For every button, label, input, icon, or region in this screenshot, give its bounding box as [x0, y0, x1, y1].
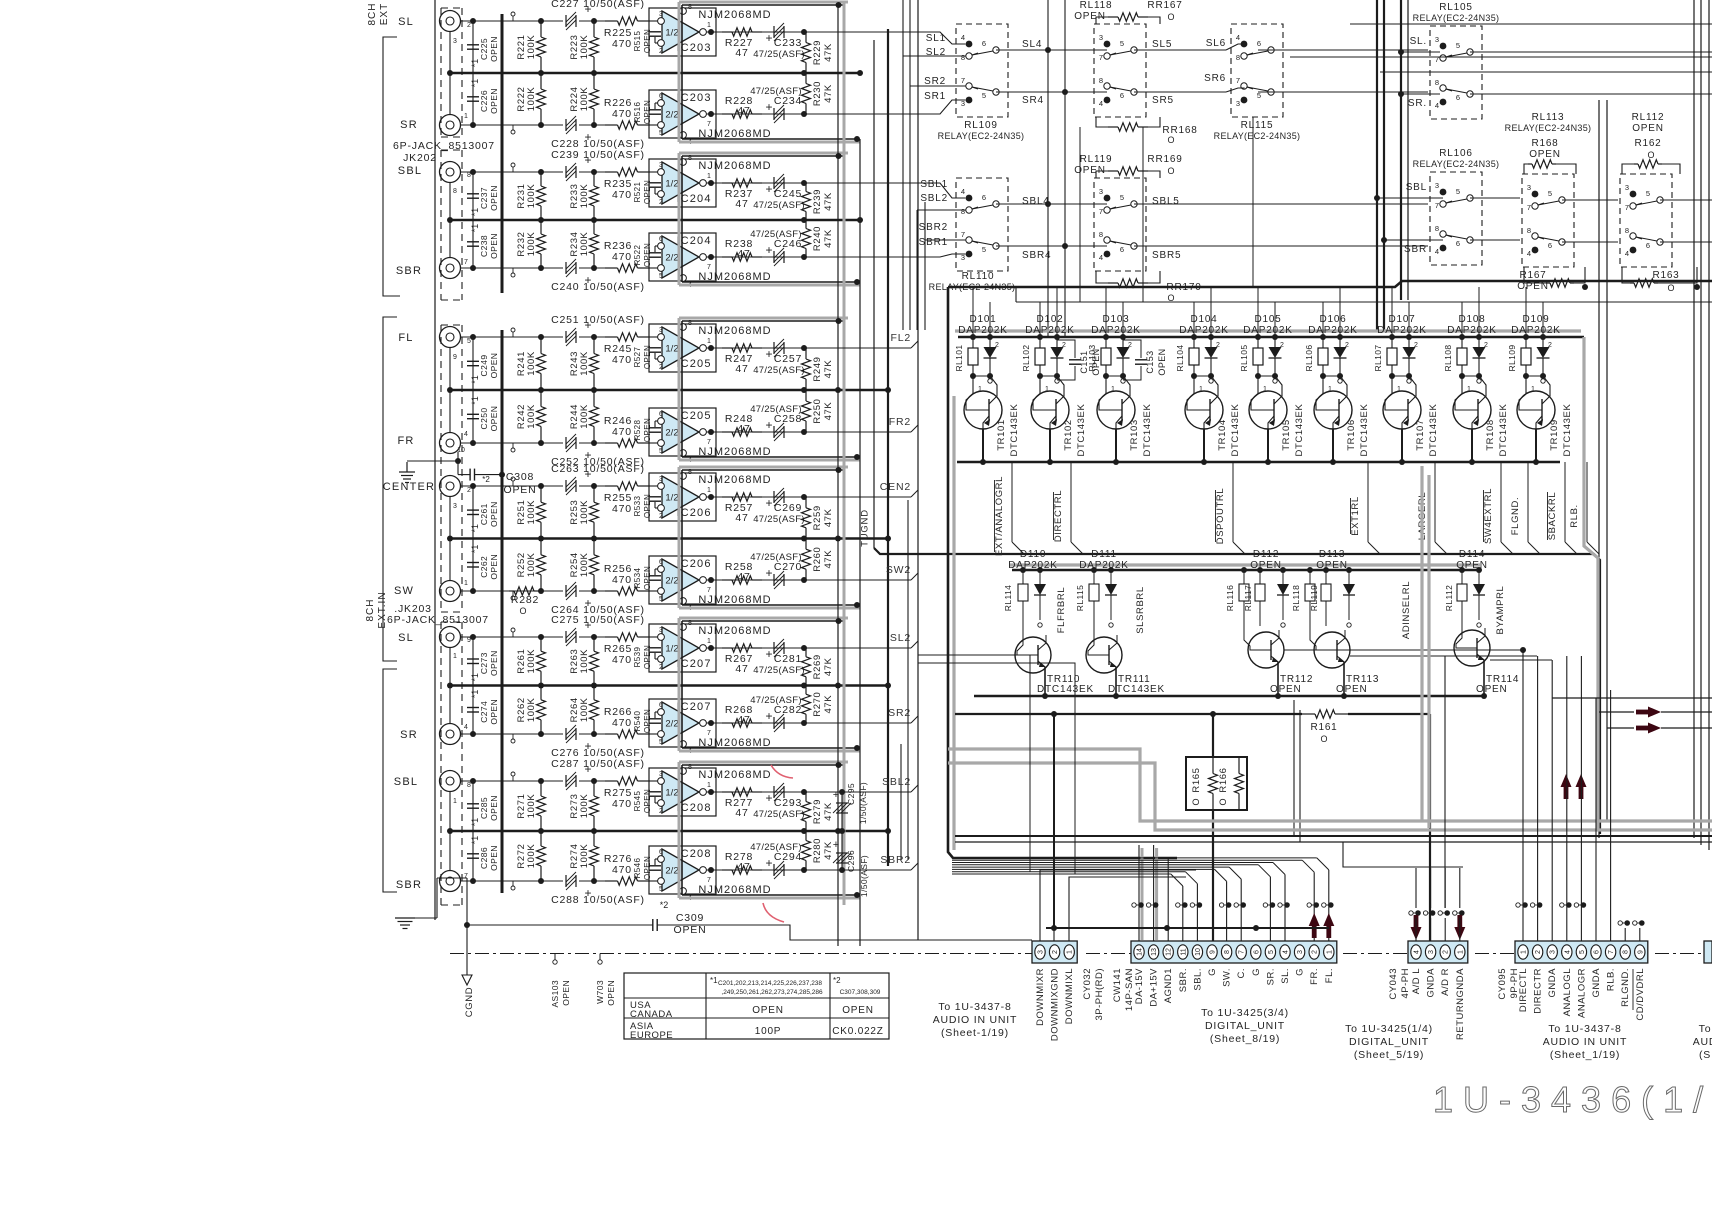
svg-text:OPEN: OPEN — [1157, 348, 1167, 375]
svg-text:R163: R163 — [1652, 270, 1679, 281]
svg-text:12: 12 — [1166, 948, 1173, 956]
svg-text:RETURNGNDA: RETURNGNDA — [1455, 968, 1466, 1040]
svg-text:OPEN: OPEN — [1529, 149, 1561, 160]
svg-text:C226: C226 — [479, 90, 489, 112]
svg-text:SL.: SL. — [1280, 968, 1291, 984]
svg-text:100K: 100K — [526, 404, 537, 429]
svg-text:7: 7 — [1527, 203, 1531, 212]
svg-text:47: 47 — [737, 423, 750, 435]
svg-text:7: 7 — [707, 587, 711, 594]
svg-text:R230: R230 — [812, 81, 823, 106]
svg-text:2: 2 — [659, 364, 663, 371]
svg-text:(Sheet-1/19): (Sheet-1/19) — [941, 1027, 1009, 1039]
svg-text:OPEN: OPEN — [1091, 348, 1101, 375]
svg-text:2: 2 — [467, 487, 471, 494]
svg-text:3: 3 — [1435, 181, 1439, 190]
svg-text:4: 4 — [1099, 253, 1103, 262]
svg-text:O: O — [519, 606, 526, 616]
svg-text:C270: C270 — [774, 561, 802, 573]
svg-text:7: 7 — [1608, 950, 1615, 954]
svg-text:5: 5 — [1268, 950, 1275, 954]
svg-text:SR6: SR6 — [1204, 73, 1226, 84]
svg-text:RELAY(EC2-24N35): RELAY(EC2-24N35) — [1413, 159, 1500, 169]
svg-text:6: 6 — [1456, 239, 1460, 248]
svg-text:TR109: TR109 — [1549, 419, 1560, 451]
svg-text:C307,308,309: C307,308,309 — [840, 989, 881, 996]
svg-text:47: 47 — [737, 714, 750, 726]
svg-text:6: 6 — [1594, 950, 1601, 954]
svg-text:47: 47 — [735, 663, 748, 675]
svg-text:R527: R527 — [633, 346, 642, 367]
svg-text:TR102: TR102 — [1063, 419, 1074, 451]
svg-text:7: 7 — [707, 877, 711, 884]
svg-text:47K: 47K — [823, 43, 834, 62]
svg-text:OPEN: OPEN — [643, 709, 652, 733]
svg-text:7: 7 — [707, 264, 711, 271]
svg-text:ANALOGL: ANALOGL — [1562, 968, 1573, 1016]
svg-text:7: 7 — [707, 730, 711, 737]
svg-text:100K: 100K — [579, 35, 590, 60]
svg-text:D107: D107 — [1388, 314, 1415, 325]
svg-text:DOWNMIXR: DOWNMIXR — [1035, 968, 1046, 1026]
svg-text:DOWNMIXL: DOWNMIXL — [1064, 968, 1075, 1024]
svg-text:EXT1RL: EXT1RL — [1350, 496, 1361, 536]
svg-text:RL116: RL116 — [1225, 585, 1235, 611]
svg-text:+: + — [765, 243, 772, 257]
svg-text:47: 47 — [737, 248, 750, 260]
svg-text:470: 470 — [612, 189, 632, 201]
svg-text:AUD: AUD — [1693, 1036, 1712, 1048]
svg-text:+: + — [765, 182, 772, 196]
svg-text:1: 1 — [707, 22, 711, 29]
svg-text:3: 3 — [659, 476, 663, 483]
svg-text:1: 1 — [1326, 950, 1333, 954]
svg-text:100K: 100K — [526, 184, 537, 209]
svg-text:DTC143EK: DTC143EK — [1562, 404, 1573, 457]
svg-text:W703: W703 — [595, 980, 605, 1004]
svg-text:EXT: EXT — [379, 3, 390, 25]
svg-text:CY095: CY095 — [1497, 968, 1508, 1000]
svg-text:FR.: FR. — [1309, 968, 1320, 985]
svg-text:4: 4 — [1283, 950, 1290, 954]
svg-text:RR167: RR167 — [1147, 0, 1182, 11]
svg-text:47: 47 — [735, 807, 748, 819]
svg-text:470: 470 — [612, 798, 632, 810]
svg-text:*1: *1 — [470, 690, 480, 699]
svg-text:7: 7 — [707, 439, 711, 446]
svg-text:RLB.: RLB. — [1569, 504, 1580, 528]
svg-text:4: 4 — [1625, 249, 1629, 258]
svg-text:C225: C225 — [479, 38, 489, 60]
svg-text:TUGND: TUGND — [860, 509, 871, 547]
svg-text:47: 47 — [737, 861, 750, 873]
svg-text:5: 5 — [1456, 41, 1460, 50]
svg-text:OPEN: OPEN — [643, 180, 652, 204]
svg-text:100K: 100K — [579, 844, 590, 869]
svg-text:RL109: RL109 — [1507, 344, 1517, 371]
svg-text:2: 2 — [1548, 342, 1552, 349]
svg-text:C274: C274 — [479, 701, 489, 723]
svg-text:100K: 100K — [526, 232, 537, 257]
svg-text:(Sheet_5/19): (Sheet_5/19) — [1354, 1049, 1424, 1061]
svg-text:R161: R161 — [1310, 722, 1337, 733]
svg-text:RLB.: RLB. — [1606, 968, 1617, 991]
svg-text:3: 3 — [1625, 183, 1629, 192]
svg-text:3: 3 — [453, 38, 457, 45]
svg-text:FLFRBRL: FLFRBRL — [1056, 587, 1067, 633]
svg-text:47: 47 — [737, 571, 750, 583]
svg-text:2: 2 — [1128, 342, 1132, 349]
svg-text:RL108: RL108 — [1443, 344, 1453, 371]
svg-text:2/2: 2/2 — [665, 576, 678, 587]
svg-text:C153: C153 — [1145, 350, 1155, 373]
svg-text:SR4: SR4 — [1022, 95, 1044, 106]
svg-text:SL5: SL5 — [1152, 39, 1172, 50]
svg-text:RL118: RL118 — [1080, 0, 1113, 11]
svg-text:R533: R533 — [633, 495, 642, 516]
svg-text:5: 5 — [1120, 39, 1124, 48]
svg-text:D110: D110 — [1020, 549, 1046, 560]
svg-text:470: 470 — [612, 654, 632, 666]
svg-text:3: 3 — [1435, 35, 1439, 44]
svg-text:100P: 100P — [755, 1026, 782, 1037]
svg-text:1: 1 — [453, 653, 457, 660]
svg-text:4: 4 — [961, 33, 965, 42]
svg-text:8: 8 — [1099, 76, 1103, 85]
svg-text:47K: 47K — [823, 192, 834, 211]
svg-text:R545: R545 — [633, 790, 642, 811]
svg-text:2: 2 — [1443, 950, 1450, 954]
svg-text:OPEN: OPEN — [489, 650, 499, 676]
svg-text:*1: *1 — [470, 375, 480, 384]
svg-text:*2: *2 — [833, 976, 841, 985]
svg-text:+: + — [765, 856, 772, 870]
svg-text:6P-JACK_8513007: 6P-JACK_8513007 — [387, 614, 489, 626]
svg-text:1/2: 1/2 — [665, 179, 678, 190]
svg-text:DAP202K: DAP202K — [1308, 325, 1358, 336]
svg-text:8: 8 — [467, 172, 471, 179]
svg-text:47K: 47K — [823, 508, 834, 527]
svg-text:ADINSELRL: ADINSELRL — [1401, 581, 1412, 639]
svg-text:D104: D104 — [1190, 314, 1217, 325]
svg-text:DAP202K: DAP202K — [1079, 560, 1129, 571]
svg-text:C239 10/50(ASF): C239 10/50(ASF) — [551, 149, 645, 161]
svg-text:3: 3 — [1099, 187, 1103, 196]
svg-text:4: 4 — [1435, 101, 1439, 110]
svg-text:C245: C245 — [774, 188, 802, 200]
svg-text:1: 1 — [453, 798, 457, 805]
svg-text:1: 1 — [707, 487, 711, 494]
svg-text:RL110: RL110 — [962, 271, 995, 282]
svg-text:DA-15V: DA-15V — [1134, 968, 1145, 1004]
svg-text:C308: C308 — [506, 471, 534, 483]
svg-text:+: + — [833, 839, 839, 851]
svg-text:4: 4 — [1414, 950, 1421, 954]
svg-text:5: 5 — [659, 448, 663, 455]
svg-text:8: 8 — [961, 207, 965, 216]
svg-text:RL118: RL118 — [1291, 585, 1301, 611]
svg-text:DIGITAL_UNIT: DIGITAL_UNIT — [1205, 1020, 1285, 1032]
svg-text:R534: R534 — [633, 567, 642, 588]
svg-text:4: 4 — [1099, 99, 1103, 108]
svg-text:SBL5: SBL5 — [1152, 196, 1180, 207]
svg-text:9: 9 — [453, 354, 457, 361]
svg-text:SBL: SBL — [394, 776, 418, 788]
svg-text:(Sheet_1/19): (Sheet_1/19) — [1550, 1049, 1620, 1061]
svg-text:R168: R168 — [1531, 138, 1558, 149]
svg-text:O: O — [1320, 734, 1327, 744]
svg-text:8CH: 8CH — [367, 2, 378, 25]
svg-text:*2: *2 — [482, 475, 490, 484]
svg-text:3: 3 — [659, 11, 663, 18]
svg-text:G: G — [1251, 968, 1262, 976]
svg-text:100K: 100K — [526, 844, 537, 869]
svg-text:*1: *1 — [470, 59, 480, 68]
svg-text:SBL: SBL — [1406, 182, 1427, 193]
svg-text:FL2: FL2 — [891, 332, 912, 344]
svg-text:C294: C294 — [774, 851, 802, 863]
svg-text:C293: C293 — [774, 797, 802, 809]
svg-text:3P-PH(RD): 3P-PH(RD) — [1094, 968, 1105, 1021]
svg-text:6: 6 — [1120, 91, 1124, 100]
svg-text:7: 7 — [707, 121, 711, 128]
svg-text:OPEN: OPEN — [643, 566, 652, 590]
svg-text:1/2: 1/2 — [665, 788, 678, 799]
svg-text:RL119: RL119 — [1309, 585, 1319, 611]
svg-text:D102: D102 — [1036, 314, 1063, 325]
svg-text:CGND: CGND — [464, 987, 475, 1017]
svg-text:DAP202K: DAP202K — [1091, 325, 1141, 336]
svg-text:A/D L: A/D L — [1411, 968, 1422, 994]
svg-text:1U-3436(1/: 1U-3436(1/ — [1433, 1079, 1712, 1120]
svg-text:OPEN: OPEN — [1632, 123, 1664, 134]
svg-text:100K: 100K — [526, 351, 537, 376]
svg-text:8: 8 — [961, 53, 965, 62]
svg-text:DAP202K: DAP202K — [1243, 325, 1293, 336]
svg-text:5: 5 — [659, 130, 663, 137]
svg-text:SL: SL — [398, 16, 414, 28]
svg-text:100K: 100K — [579, 794, 590, 819]
svg-text:DIRECTR: DIRECTR — [1533, 968, 1544, 1014]
svg-text:5: 5 — [659, 886, 663, 893]
svg-text:OPEN: OPEN — [489, 501, 499, 527]
svg-text:3: 3 — [1428, 950, 1435, 954]
svg-text:C238: C238 — [479, 235, 489, 257]
svg-text:3: 3 — [1038, 950, 1045, 954]
svg-text:R260: R260 — [812, 547, 823, 572]
svg-text:RL114: RL114 — [1003, 585, 1013, 611]
svg-text:SW: SW — [394, 585, 414, 597]
svg-text:1/50(ASF): 1/50(ASF) — [858, 782, 868, 824]
svg-text:7: 7 — [961, 76, 965, 85]
svg-text:100K: 100K — [526, 500, 537, 525]
svg-text:OPEN: OPEN — [674, 924, 707, 936]
svg-text:8: 8 — [1625, 226, 1629, 235]
svg-text:47K: 47K — [823, 695, 834, 714]
svg-text:3: 3 — [453, 503, 457, 510]
svg-text:2: 2 — [1312, 950, 1319, 954]
svg-text:OPEN: OPEN — [1270, 684, 1302, 695]
svg-text:SR5: SR5 — [1152, 95, 1174, 106]
svg-text:C288 10/50(ASF): C288 10/50(ASF) — [551, 894, 645, 906]
svg-text:RELAY(EC2-24N35): RELAY(EC2-24N35) — [938, 131, 1025, 141]
svg-text:R546: R546 — [633, 857, 642, 878]
svg-text:RL115: RL115 — [1075, 585, 1085, 611]
svg-text:C275 10/50(ASF): C275 10/50(ASF) — [551, 614, 645, 626]
svg-text:NJM2068MD: NJM2068MD — [698, 160, 771, 172]
svg-text:3: 3 — [1297, 950, 1304, 954]
svg-text:RL115: RL115 — [1241, 120, 1274, 131]
svg-text:2: 2 — [659, 664, 663, 671]
svg-text:470: 470 — [612, 251, 632, 263]
svg-text:DAP202K: DAP202K — [958, 325, 1008, 336]
svg-text:RL112: RL112 — [1632, 112, 1665, 123]
svg-text:5: 5 — [1646, 189, 1650, 198]
svg-text:100K: 100K — [579, 184, 590, 209]
svg-text:OPEN: OPEN — [1250, 560, 1282, 571]
svg-text:R165: R165 — [1191, 767, 1202, 792]
svg-text:ANALOGR: ANALOGR — [1576, 968, 1587, 1018]
svg-text:DTC143EK: DTC143EK — [1142, 404, 1153, 457]
svg-text:AGND1: AGND1 — [1163, 968, 1174, 1003]
svg-text:47K: 47K — [823, 402, 834, 421]
svg-text:100K: 100K — [526, 697, 537, 722]
svg-text:C240 10/50(ASF): C240 10/50(ASF) — [551, 281, 645, 293]
svg-text:R515: R515 — [633, 30, 642, 51]
svg-text:47K: 47K — [823, 657, 834, 676]
svg-text:C237: C237 — [479, 187, 489, 209]
svg-text:DTC143EK: DTC143EK — [1498, 404, 1509, 457]
svg-text:47: 47 — [735, 363, 748, 375]
svg-text:D111: D111 — [1091, 549, 1117, 560]
svg-text:RLGND.: RLGND. — [1620, 968, 1631, 1007]
svg-text:AUDIO IN UNIT: AUDIO IN UNIT — [1543, 1036, 1627, 1048]
svg-text:7: 7 — [1099, 53, 1103, 62]
svg-text:O: O — [1667, 283, 1674, 293]
svg-text:R259: R259 — [812, 505, 823, 530]
svg-text:RL109: RL109 — [964, 120, 997, 131]
svg-text:C257: C257 — [774, 353, 802, 365]
svg-text:4: 4 — [1435, 247, 1439, 256]
svg-text:5: 5 — [1548, 189, 1552, 198]
svg-text:47/25(ASF): 47/25(ASF) — [753, 365, 805, 376]
svg-text:O: O — [1191, 798, 1201, 805]
svg-text:OPEN: OPEN — [1316, 560, 1348, 571]
svg-text:DTC143EK: DTC143EK — [1359, 404, 1370, 457]
svg-text:TR103: TR103 — [1129, 419, 1140, 451]
svg-text:8: 8 — [1527, 226, 1531, 235]
svg-text:,249,250,261,262,273,274,285,2: ,249,250,261,262,273,274,285,286 — [721, 989, 823, 996]
svg-text:O: O — [1167, 135, 1174, 145]
svg-text:C262: C262 — [479, 556, 489, 578]
svg-text:SL.: SL. — [1410, 36, 1427, 47]
svg-text:3: 3 — [1236, 99, 1240, 108]
svg-text:2: 2 — [1345, 342, 1349, 349]
svg-text:5: 5 — [659, 596, 663, 603]
svg-text:47: 47 — [735, 198, 748, 210]
svg-text:1/2: 1/2 — [665, 493, 678, 504]
svg-text:6: 6 — [659, 236, 663, 243]
svg-text:D103: D103 — [1102, 314, 1129, 325]
svg-text:AUDIO IN UNIT: AUDIO IN UNIT — [933, 1014, 1017, 1026]
svg-text:OPEN: OPEN — [643, 29, 652, 53]
svg-text:OPEN: OPEN — [643, 645, 652, 669]
svg-text:470: 470 — [612, 108, 632, 120]
svg-text:100K: 100K — [579, 697, 590, 722]
svg-text:3: 3 — [1527, 183, 1531, 192]
svg-text:C250: C250 — [479, 408, 489, 430]
svg-text:OPEN: OPEN — [643, 418, 652, 442]
svg-text:47: 47 — [737, 105, 750, 117]
svg-text:13: 13 — [1151, 948, 1158, 956]
svg-text:100K: 100K — [526, 87, 537, 112]
svg-text:CY043: CY043 — [1388, 968, 1399, 1000]
svg-text:NJM2068MD: NJM2068MD — [698, 625, 771, 637]
svg-text:100K: 100K — [579, 232, 590, 257]
svg-text:4: 4 — [1236, 33, 1240, 42]
svg-text:1/2: 1/2 — [665, 28, 678, 39]
svg-text:OPEN: OPEN — [643, 494, 652, 518]
svg-text:6: 6 — [1253, 950, 1260, 954]
svg-text:+: + — [833, 789, 839, 801]
svg-text:BYAMPRL: BYAMPRL — [1495, 586, 1506, 635]
svg-text:2: 2 — [1052, 950, 1059, 954]
svg-text:DTC143EK: DTC143EK — [1037, 684, 1094, 695]
svg-text:D108: D108 — [1458, 314, 1485, 325]
svg-text:100K: 100K — [579, 500, 590, 525]
svg-text:O: O — [1218, 798, 1228, 805]
svg-text:C273: C273 — [479, 652, 489, 674]
svg-text:C249: C249 — [479, 355, 489, 377]
svg-text:8: 8 — [1224, 950, 1231, 954]
svg-text:SBL.: SBL. — [1192, 968, 1203, 991]
svg-text:A/D R: A/D R — [1440, 968, 1451, 996]
svg-text:470: 470 — [612, 354, 632, 366]
svg-text:100K: 100K — [526, 35, 537, 60]
svg-text:SW2: SW2 — [886, 564, 911, 576]
svg-text:1: 1 — [707, 338, 711, 345]
svg-text:+: + — [765, 709, 772, 723]
svg-text:SW.: SW. — [1222, 968, 1233, 987]
svg-text:7: 7 — [961, 230, 965, 239]
svg-text:47K: 47K — [823, 802, 834, 821]
svg-text:AS103: AS103 — [550, 980, 560, 1008]
svg-text:2/2: 2/2 — [665, 253, 678, 264]
svg-text:SL4: SL4 — [1022, 39, 1042, 50]
svg-text:6: 6 — [659, 411, 663, 418]
svg-text:6: 6 — [659, 559, 663, 566]
svg-text:CW141: CW141 — [1112, 968, 1123, 1002]
svg-text:5: 5 — [659, 739, 663, 746]
svg-text:(Sheet_8/19): (Sheet_8/19) — [1210, 1033, 1280, 1045]
svg-text:CK0.022Z: CK0.022Z — [832, 1026, 883, 1037]
svg-text:R282: R282 — [511, 594, 539, 606]
svg-text:SBR2: SBR2 — [919, 222, 948, 233]
svg-text:To 1U-3437-8: To 1U-3437-8 — [938, 1001, 1011, 1013]
svg-text:RL117: RL117 — [1243, 585, 1253, 611]
svg-text:D113: D113 — [1319, 549, 1345, 560]
svg-text:100K: 100K — [579, 649, 590, 674]
svg-text:3: 3 — [659, 771, 663, 778]
svg-text:C261: C261 — [479, 503, 489, 525]
svg-text:47/25(ASF): 47/25(ASF) — [753, 514, 805, 525]
svg-text:100K: 100K — [526, 794, 537, 819]
svg-text:1: 1 — [1457, 950, 1464, 954]
svg-text:DAP202K: DAP202K — [1377, 325, 1427, 336]
svg-text:7: 7 — [1236, 76, 1240, 85]
svg-text:SR.: SR. — [1408, 98, 1427, 109]
svg-text:OPEN: OPEN — [842, 1005, 874, 1016]
